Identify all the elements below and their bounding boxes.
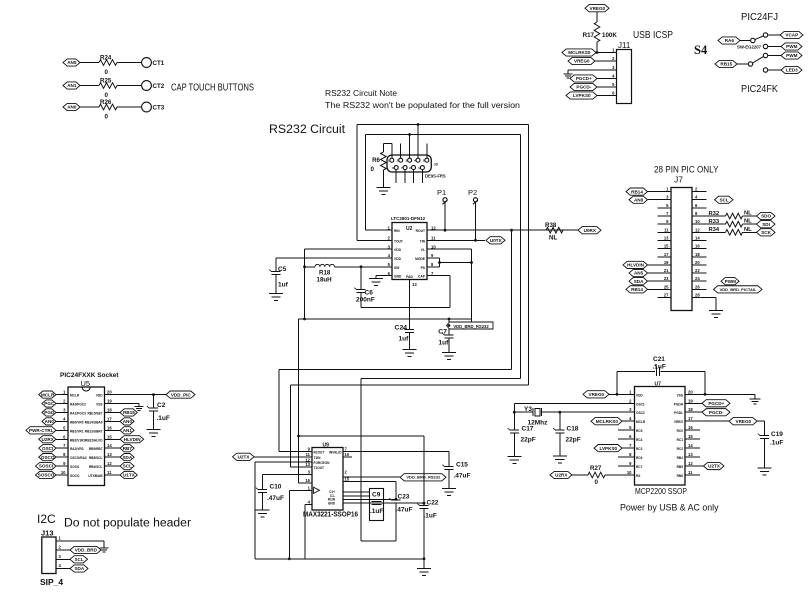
svg-text:RB14: RB14 — [631, 189, 643, 194]
svg-text:MCLR: MCLR — [41, 392, 55, 397]
svg-text:Do not populate header: Do not populate header — [64, 518, 191, 530]
svg-text:CT2: CT2 — [153, 83, 165, 90]
svg-text:RB0/VR0: RB0/VR0 — [70, 420, 84, 424]
svg-text:PAD: PAD — [406, 275, 413, 279]
svg-text:VL: VL — [421, 248, 425, 252]
svg-text:C6: C6 — [365, 290, 374, 297]
svg-text:13: 13 — [305, 462, 310, 467]
svg-text:AN5: AN5 — [634, 271, 644, 276]
svg-text:RB15: RB15 — [123, 410, 135, 415]
svg-text:21: 21 — [664, 268, 669, 273]
svg-text:RA6: RA6 — [725, 38, 735, 43]
svg-text:R26: R26 — [100, 99, 112, 106]
svg-text:RC1: RC1 — [677, 438, 684, 442]
svg-text:200nF: 200nF — [356, 297, 375, 304]
svg-text:VREG0: VREG0 — [574, 59, 590, 64]
svg-text:R2OUT: R2OUT — [314, 451, 325, 455]
svg-text:FORCEON: FORCEON — [314, 461, 331, 465]
svg-text:PIC24FK: PIC24FK — [741, 84, 778, 95]
svg-text:RB9/RB7: RB9/RB7 — [89, 447, 103, 451]
svg-text:.1uF: .1uF — [424, 513, 437, 520]
svg-text:R33: R33 — [709, 219, 720, 225]
svg-text:SDA: SDA — [122, 455, 132, 460]
svg-text:16: 16 — [695, 244, 700, 249]
svg-text:PGC: PGC — [44, 401, 55, 406]
svg-text:RC2: RC2 — [677, 447, 684, 451]
svg-text:C21: C21 — [653, 356, 665, 363]
svg-text:C15: C15 — [456, 462, 468, 469]
svg-text:PWM: PWM — [725, 279, 736, 284]
svg-text:C17: C17 — [522, 426, 534, 433]
svg-text:20: 20 — [688, 389, 693, 394]
svg-text:VSS: VSS — [96, 403, 102, 407]
svg-text:C23: C23 — [398, 494, 410, 501]
svg-text:NL: NL — [744, 227, 752, 233]
svg-text:AN0: AN0 — [45, 419, 55, 424]
svg-text:RC3: RC3 — [636, 447, 643, 451]
svg-text:14: 14 — [107, 443, 112, 448]
svg-text:U2: U2 — [406, 226, 413, 232]
svg-text:PIC24FJ: PIC24FJ — [741, 12, 778, 23]
svg-text:PGCD+: PGCD+ — [708, 401, 724, 406]
svg-text:13: 13 — [688, 452, 693, 457]
svg-text:16: 16 — [688, 425, 693, 430]
svg-text:RC6: RC6 — [636, 456, 643, 460]
svg-text:AN5: AN5 — [67, 60, 77, 65]
svg-text:USB ICSP: USB ICSP — [633, 30, 673, 41]
svg-text:HLVDIN: HLVDIN — [124, 437, 141, 442]
svg-text:The RS232 won't be populated f: The RS232 won't be populated for the ful… — [325, 100, 520, 110]
svg-text:T2IN: T2IN — [314, 456, 322, 460]
svg-text:22pF: 22pF — [566, 437, 581, 444]
svg-text:VREG0: VREG0 — [589, 392, 605, 397]
svg-text:VREG: VREG — [674, 420, 684, 424]
svg-text:SDI: SDI — [762, 222, 770, 227]
svg-text:RB8/SCL: RB8/SCL — [89, 456, 103, 460]
svg-text:LVPKS0: LVPKS0 — [600, 446, 618, 451]
svg-text:22pF: 22pF — [521, 437, 536, 444]
svg-text:RS232 Circuit: RS232 Circuit — [269, 122, 346, 136]
svg-text:18: 18 — [688, 407, 693, 412]
svg-text:J3: J3 — [434, 163, 438, 167]
svg-text:.47uF: .47uF — [454, 473, 471, 480]
svg-text:11: 11 — [431, 236, 436, 241]
svg-text:SOSCO: SOSCO — [38, 473, 55, 478]
svg-text:SDA: SDA — [634, 279, 644, 284]
svg-text:11: 11 — [688, 470, 693, 475]
svg-text:Power by USB & AC only: Power by USB & AC only — [620, 503, 719, 513]
svg-text:CAP: CAP — [418, 275, 426, 279]
svg-text:C2: C2 — [157, 402, 166, 409]
svg-text:16: 16 — [107, 425, 112, 430]
svg-text:SDO: SDO — [761, 214, 771, 219]
svg-text:VDD: VDD — [394, 248, 402, 252]
svg-text:R6: R6 — [372, 157, 380, 164]
svg-text:DE9S-FRS: DE9S-FRS — [425, 174, 446, 179]
svg-text:OSCO: OSCO — [41, 455, 55, 460]
svg-text:C5: C5 — [278, 266, 287, 273]
svg-text:13: 13 — [664, 235, 669, 240]
svg-text:PGDL: PGDL — [674, 411, 683, 415]
svg-text:PGCD+: PGCD+ — [576, 76, 592, 81]
svg-text:J7: J7 — [674, 175, 683, 185]
svg-text:C10: C10 — [270, 484, 282, 491]
svg-text:ROUT: ROUT — [416, 229, 425, 233]
svg-text:RS232 Circuit Note: RS232 Circuit Note — [325, 88, 397, 98]
svg-text:SCK: SCK — [761, 230, 771, 235]
svg-text:13: 13 — [412, 282, 417, 287]
svg-text:11: 11 — [107, 470, 112, 475]
svg-text:NL: NL — [744, 219, 752, 225]
svg-text:28 PIN PIC ONLY: 28 PIN PIC ONLY — [654, 165, 719, 175]
svg-text:1uf: 1uf — [278, 282, 289, 289]
svg-text:26: 26 — [695, 284, 700, 289]
svg-text:R27: R27 — [590, 465, 602, 472]
svg-text:.1uF: .1uF — [770, 440, 783, 447]
svg-text:UTXB/AB: UTXB/AB — [88, 474, 103, 478]
svg-text:R17: R17 — [583, 32, 595, 39]
svg-text:J11: J11 — [618, 41, 631, 50]
svg-text:PWM: PWM — [786, 53, 797, 58]
svg-text:17: 17 — [688, 416, 693, 421]
svg-text:VREG0: VREG0 — [736, 419, 752, 424]
svg-text:U2RX: U2RX — [42, 437, 55, 442]
svg-text:SCL: SCL — [719, 197, 728, 202]
svg-text:VCAP: VCAP — [785, 33, 798, 38]
svg-text:OSCI: OSCI — [42, 446, 53, 451]
svg-text:11: 11 — [664, 227, 669, 232]
svg-text:17: 17 — [664, 252, 669, 257]
svg-text:15: 15 — [107, 434, 112, 439]
svg-text:MCLR: MCLR — [636, 420, 646, 424]
svg-text:C7: C7 — [438, 329, 447, 336]
svg-text:MCP2200 SSOP: MCP2200 SSOP — [635, 486, 687, 496]
svg-text:24: 24 — [695, 276, 700, 281]
svg-text:SDA: SDA — [74, 566, 84, 571]
svg-text:AN1: AN1 — [67, 83, 77, 88]
svg-text:0: 0 — [105, 69, 109, 76]
svg-text:INVALID: INVALID — [329, 451, 342, 455]
svg-text:12: 12 — [431, 225, 436, 230]
svg-text:MCLRKS0: MCLRKS0 — [568, 50, 591, 55]
svg-text:OSC1: OSC1 — [636, 402, 645, 406]
svg-text:LED3: LED3 — [786, 68, 798, 73]
svg-text:R34: R34 — [709, 227, 720, 233]
svg-text:CAP TOUCH BUTTONS: CAP TOUCH BUTTONS — [171, 83, 254, 94]
svg-text:SOCO: SOCO — [70, 474, 80, 478]
svg-text:P1: P1 — [437, 188, 446, 197]
svg-text:SW: SW — [394, 266, 400, 270]
svg-text:VDD_BRD: VDD_BRD — [75, 548, 98, 553]
svg-text:0: 0 — [595, 479, 599, 486]
svg-text:U2TX: U2TX — [708, 464, 721, 469]
svg-text:T1OUT: T1OUT — [314, 466, 325, 470]
svg-text:22: 22 — [695, 268, 700, 273]
svg-text:19: 19 — [664, 260, 669, 265]
svg-text:U1TX: U1TX — [123, 473, 136, 478]
svg-text:.47uF: .47uF — [267, 495, 284, 502]
svg-text:U0TX: U0TX — [490, 238, 503, 243]
svg-text:16: 16 — [305, 478, 310, 483]
svg-text:U2TX: U2TX — [238, 454, 251, 459]
svg-text:0: 0 — [105, 114, 109, 121]
svg-text:C9: C9 — [372, 492, 381, 499]
svg-text:C24: C24 — [395, 325, 408, 332]
svg-text:.1uF: .1uF — [370, 508, 383, 515]
svg-text:18uH: 18uH — [317, 277, 333, 284]
svg-text:27: 27 — [664, 292, 669, 297]
svg-text:U0RX: U0RX — [584, 228, 597, 233]
svg-text:12: 12 — [688, 461, 693, 466]
svg-text:11: 11 — [306, 452, 311, 457]
svg-text:RC5: RC5 — [636, 429, 643, 433]
svg-text:VDD_BRD_RS232: VDD_BRD_RS232 — [453, 324, 489, 329]
svg-text:RC7: RC7 — [636, 465, 643, 469]
svg-text:HLVDIN: HLVDIN — [627, 263, 644, 268]
svg-text:VDD: VDD — [394, 257, 402, 261]
svg-text:AN8: AN8 — [634, 197, 644, 202]
svg-text:13: 13 — [107, 452, 112, 457]
svg-text:C19: C19 — [771, 431, 783, 438]
svg-text:RB15: RB15 — [720, 62, 732, 67]
svg-text:LTC2801-DFN12: LTC2801-DFN12 — [391, 216, 426, 221]
svg-text:PGCD-: PGCD- — [576, 85, 591, 90]
svg-text:RB15/SE7: RB15/SE7 — [87, 411, 102, 415]
svg-text:S4: S4 — [694, 43, 708, 57]
svg-text:RB2/V1R2: RB2/V1R2 — [70, 438, 85, 442]
svg-text:OSCO/RA3: OSCO/RA3 — [70, 456, 87, 460]
svg-text:LVPKS0: LVPKS0 — [573, 93, 591, 98]
svg-text:Y3: Y3 — [524, 406, 532, 413]
svg-text:CT3: CT3 — [153, 105, 165, 112]
svg-text:PGD: PGD — [44, 410, 55, 415]
svg-text:14: 14 — [695, 235, 700, 240]
svg-text:VDD: VDD — [636, 393, 643, 397]
svg-text:1uf: 1uf — [439, 340, 450, 347]
svg-text:RA0/PGC2: RA0/PGC2 — [70, 403, 86, 407]
svg-text:0: 0 — [371, 166, 375, 173]
svg-text:R38: R38 — [545, 222, 557, 229]
svg-text:VSS: VSS — [677, 393, 683, 397]
svg-text:SCL: SCL — [123, 464, 132, 469]
svg-text:PWM: PWM — [786, 44, 797, 49]
svg-text:1uf: 1uf — [399, 336, 410, 343]
svg-text:SCL: SCL — [74, 557, 83, 562]
svg-text:10: 10 — [431, 244, 436, 249]
svg-text:25: 25 — [664, 284, 669, 289]
svg-text:15: 15 — [664, 244, 669, 249]
svg-text:RB7: RB7 — [123, 446, 133, 451]
svg-text:PGDH: PGDH — [674, 402, 684, 406]
svg-text:28: 28 — [695, 292, 700, 297]
svg-text:10: 10 — [345, 452, 350, 457]
svg-text:R25: R25 — [100, 77, 112, 84]
svg-text:RC4: RC4 — [636, 438, 643, 442]
svg-text:12: 12 — [695, 227, 700, 232]
svg-text:RB5: RB5 — [677, 465, 684, 469]
svg-text:SW-EG2207: SW-EG2207 — [737, 44, 762, 49]
svg-text:PIC24FXXK Socket: PIC24FXXK Socket — [60, 372, 119, 379]
svg-text:GND: GND — [328, 502, 336, 506]
svg-text:PGCD-: PGCD- — [709, 410, 724, 415]
svg-text:I2C: I2C — [37, 512, 56, 526]
svg-text:.47uF: .47uF — [396, 507, 413, 514]
svg-text:SOSO: SOSO — [70, 465, 80, 469]
svg-text:RB4: RB4 — [677, 456, 684, 460]
svg-text:SIP_4: SIP_4 — [40, 577, 63, 587]
svg-text:23: 23 — [664, 276, 669, 281]
svg-text:R18: R18 — [319, 270, 331, 277]
svg-text:MCLRKS0: MCLRKS0 — [596, 419, 619, 424]
svg-text:RIN: RIN — [394, 229, 400, 233]
svg-text:MODE: MODE — [415, 257, 426, 261]
svg-text:RB12/HLVD: RB12/HLVD — [85, 438, 103, 442]
svg-text:P2: P2 — [468, 188, 477, 197]
svg-text:NL: NL — [744, 211, 752, 217]
svg-text:NL: NL — [549, 235, 557, 242]
svg-text:RB6: RB6 — [677, 474, 684, 478]
svg-text:.1uF: .1uF — [157, 415, 170, 422]
svg-text:RB14/UBA0: RB14/UBA0 — [85, 420, 103, 424]
svg-text:RB1/VR1: RB1/VR1 — [70, 429, 84, 433]
svg-text:RB9/SCL: RB9/SCL — [89, 465, 103, 469]
svg-text:R32: R32 — [709, 211, 720, 217]
svg-text:CT1: CT1 — [153, 60, 165, 67]
svg-text:R24: R24 — [100, 54, 112, 61]
svg-text:RC0: RC0 — [677, 429, 684, 433]
svg-text:10: 10 — [695, 219, 700, 224]
svg-text:10: 10 — [61, 470, 66, 475]
svg-text:TIN: TIN — [420, 239, 426, 243]
svg-text:C18: C18 — [567, 426, 579, 433]
svg-text:MCLR: MCLR — [70, 394, 80, 398]
svg-text:VDD: VDD — [96, 394, 103, 398]
svg-text:10: 10 — [627, 470, 632, 475]
svg-text:OSC2: OSC2 — [636, 411, 645, 415]
svg-text:12: 12 — [107, 461, 112, 466]
svg-text:18: 18 — [695, 252, 700, 257]
svg-text:RB14: RB14 — [631, 287, 643, 292]
svg-text:100K: 100K — [602, 32, 617, 39]
svg-text:GND: GND — [394, 275, 402, 279]
svg-text:14: 14 — [688, 443, 693, 448]
svg-text:VREG0: VREG0 — [590, 6, 606, 11]
svg-text:AN0: AN0 — [123, 419, 133, 424]
svg-text:MAX3221-SSOP16: MAX3221-SSOP16 — [303, 510, 358, 519]
svg-text:RA1/PGC3: RA1/PGC3 — [70, 411, 86, 415]
svg-text:15: 15 — [688, 434, 693, 439]
svg-text:TOUT: TOUT — [394, 239, 403, 243]
svg-text:J13: J13 — [41, 529, 54, 538]
svg-text:17: 17 — [107, 416, 112, 421]
svg-text:19: 19 — [107, 399, 112, 404]
svg-text:18: 18 — [107, 407, 112, 412]
svg-text:AN0: AN0 — [67, 105, 77, 110]
svg-text:C22: C22 — [427, 500, 439, 507]
svg-text:PWR-CTRL: PWR-CTRL — [29, 428, 54, 433]
svg-text:20: 20 — [695, 260, 700, 265]
svg-text:AN1: AN1 — [123, 428, 133, 433]
svg-text:VDD_BRD_PICTAIL: VDD_BRD_PICTAIL — [720, 287, 757, 292]
svg-text:U2RX: U2RX — [555, 473, 568, 478]
svg-text:RA2/VR3: RA2/VR3 — [70, 447, 84, 451]
svg-text:VDD_PIC: VDD_PIC — [171, 392, 192, 397]
svg-text:20: 20 — [107, 390, 112, 395]
svg-text:SOSCI: SOSCI — [39, 464, 53, 469]
svg-text:19: 19 — [688, 398, 693, 403]
svg-text:RB13/UBR7: RB13/UBR7 — [85, 429, 103, 433]
